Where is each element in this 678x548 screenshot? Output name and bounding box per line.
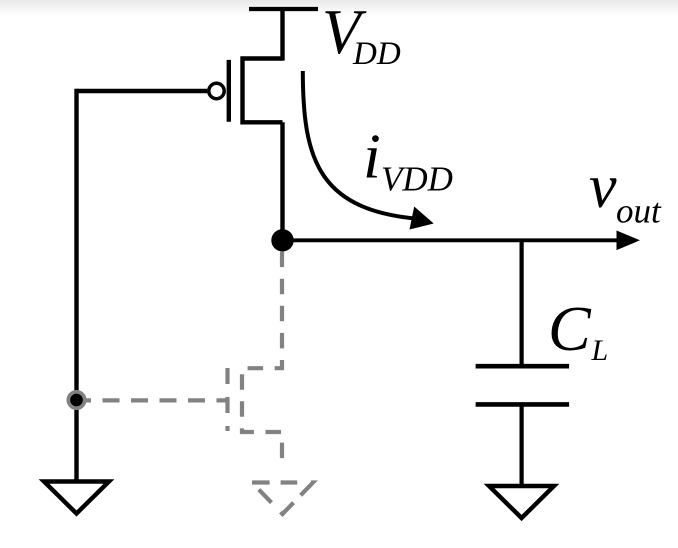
label v_out	[589, 153, 662, 231]
output wire	[283, 238, 623, 242]
current arrow i_VDD (curved)	[303, 71, 434, 230]
gray junction dot on left wire	[68, 392, 84, 408]
PMOS gate bubble	[209, 83, 224, 98]
PMOS gate bar	[227, 60, 231, 122]
capacitor C_L bottom plate	[476, 402, 569, 407]
VDD supply rail	[249, 7, 318, 11]
svg-text:DD: DD	[352, 36, 401, 72]
left wire (gate feedback down to ground)	[74, 89, 78, 482]
svg-text:L: L	[591, 334, 609, 367]
node: output junction dot	[271, 229, 293, 251]
svg-text:i: i	[363, 121, 381, 192]
ground (right)	[489, 486, 554, 518]
wire: PMOS drain to output node	[280, 122, 284, 240]
label V_DD	[322, 0, 401, 72]
label C_L	[548, 293, 608, 367]
v_out arrowhead	[617, 231, 641, 251]
label i_VDD	[363, 121, 453, 199]
svg-text:v: v	[589, 153, 617, 221]
wire: VDD rail to PMOS source	[280, 9, 284, 61]
svg-text:C: C	[548, 293, 592, 364]
ground (left)	[44, 482, 109, 514]
transistor M1 (PMOS) body: source step, channel, drain step	[243, 59, 283, 123]
ghost NMOS gate bar (dashed)	[225, 368, 229, 431]
dashed ground (ghost)	[252, 483, 313, 515]
dashed gate wire (ghost NMOS gate)	[86, 398, 227, 402]
wire: node to capacitor	[519, 240, 523, 366]
capacitor C_L top plate	[476, 364, 569, 369]
gate wire	[77, 89, 208, 93]
dashed wire+body: node down through ghost NMOS to ghost ground wire	[242, 247, 282, 460]
svg-text:out: out	[616, 192, 662, 231]
wire: capacitor to ground	[519, 404, 523, 486]
svg-text:VDD: VDD	[381, 160, 453, 199]
